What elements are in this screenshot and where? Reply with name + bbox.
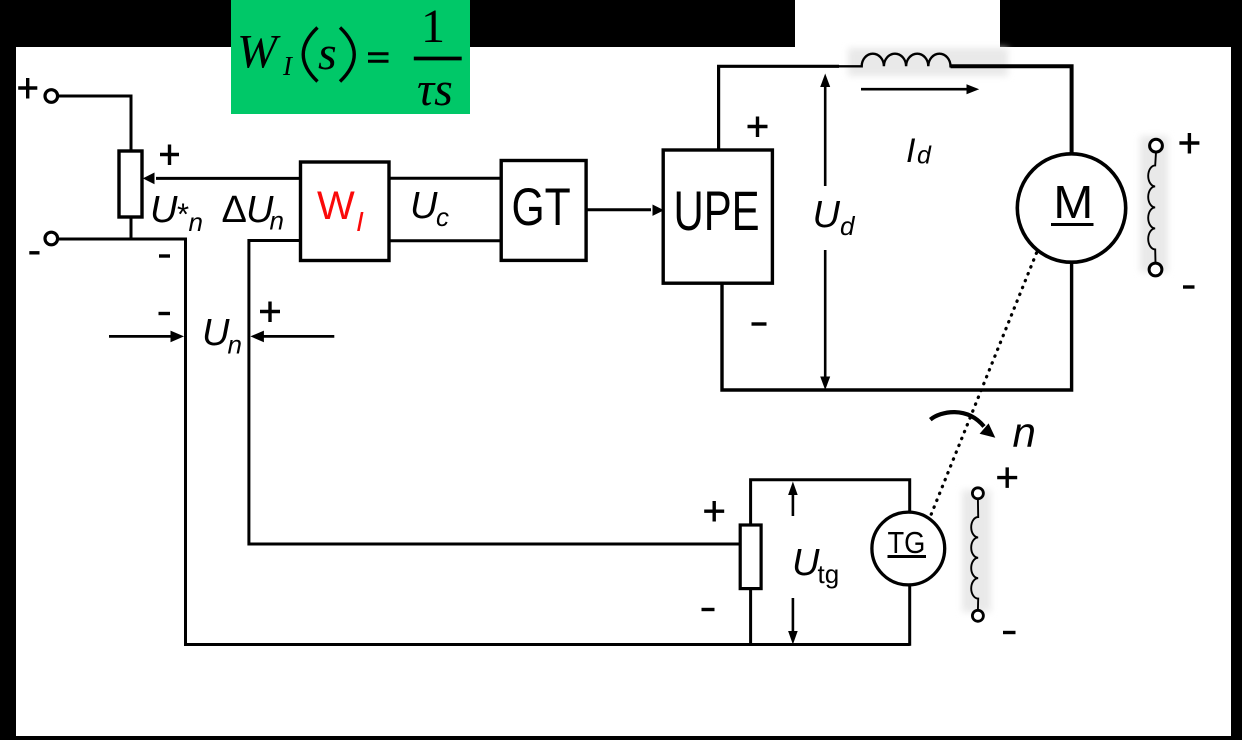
minus sign below potentiometer [159, 254, 170, 257]
wire: left feedback bus from - terminal down and along bottom to TG loop [58, 239, 910, 645]
svg-text:U: U [202, 312, 230, 354]
resistor in TG loop [740, 525, 761, 589]
svg-text:τs: τs [417, 63, 453, 116]
svg-text:n: n [1013, 409, 1036, 456]
motor M circle [1017, 154, 1125, 262]
wire TG loop top [751, 480, 910, 525]
wire GT to UPE with arrow [586, 208, 651, 211]
svg-text:U: U [813, 194, 841, 236]
svg-text:I: I [356, 206, 364, 237]
motor field winding coil [1148, 152, 1156, 263]
wire UPE top to bus [719, 66, 839, 150]
block UPE [663, 150, 772, 283]
label delta U_n [222, 189, 284, 236]
I_d current arrow [861, 88, 967, 91]
U_n right arrow [262, 335, 334, 338]
plus sign TG field [997, 467, 1017, 488]
label M underlined [1051, 177, 1094, 228]
wires W_I to GT [389, 177, 501, 180]
svg-text:1: 1 [421, 0, 445, 53]
svg-text:n: n [189, 207, 203, 237]
plus sign at top-left source terminal [18, 78, 37, 99]
svg-text:d: d [840, 211, 856, 241]
minus sign above U_n left arrow [159, 312, 171, 315]
rotation arrow n [930, 412, 984, 426]
svg-text:n: n [228, 330, 242, 360]
plus sign motor field [1179, 133, 1199, 154]
terminal circle - (bottom-left) [45, 232, 58, 245]
label U_tg [792, 542, 839, 589]
label U*_n [150, 189, 203, 237]
svg-text:W: W [317, 184, 355, 228]
svg-text:s: s [318, 27, 337, 80]
svg-text:U: U [150, 189, 178, 231]
svg-text:tg: tg [818, 559, 840, 589]
potentiometer R [119, 151, 142, 217]
svg-text:W: W [237, 26, 281, 79]
wire: inner feedback from W_I input down to TG resistor [249, 241, 740, 545]
label TG underlined [888, 526, 927, 560]
tachogenerator TG circle [872, 512, 945, 585]
dotted shaft M to TG [931, 253, 1037, 516]
U_tg double arrow [788, 482, 798, 645]
svg-text:*: * [177, 197, 189, 232]
U_d double arrow [820, 74, 830, 391]
smoothing reactor L coil [839, 54, 956, 67]
svg-text:c: c [436, 202, 449, 232]
minus sign below UPE [752, 322, 767, 325]
label U_d [813, 194, 857, 241]
wire potentiometer bottom [130, 217, 133, 241]
TG field winding coil [971, 499, 978, 611]
plus sign at potentiometer wiper [160, 145, 179, 166]
minus sign motor field [1183, 285, 1195, 288]
svg-text:n: n [270, 206, 284, 236]
minus sign TG field [1003, 631, 1016, 634]
TG field terminal circles [972, 488, 983, 499]
svg-text:UPE: UPE [674, 180, 760, 242]
svg-text:GT: GT [512, 178, 571, 237]
block GT [501, 161, 586, 261]
plus sign TG loop [704, 501, 724, 522]
wire below resistor [749, 589, 752, 646]
smoothing reactor L (fuzz) [848, 48, 1008, 76]
motor field winding fuzz [1140, 136, 1168, 272]
label W_I (red) [317, 184, 364, 237]
motor field terminal circles [1150, 139, 1163, 152]
wire TG bottom vertical [908, 585, 911, 646]
terminal circle + (top-left) [45, 90, 58, 103]
label U_c [410, 185, 449, 232]
minus sign at bottom-left source terminal [29, 251, 39, 254]
svg-text:d: d [917, 142, 932, 170]
green formula box [231, 0, 470, 116]
wire bus to M top [951, 66, 1072, 154]
regulator block W_I (U1) [301, 162, 390, 261]
svg-text:I: I [906, 132, 916, 170]
svg-text:U: U [410, 185, 438, 227]
plus sign above UPE [748, 117, 768, 138]
minus sign TG loop [702, 608, 715, 611]
label U_n [202, 312, 242, 360]
TG field winding fuzz [962, 490, 991, 612]
U_n left arrow [109, 335, 172, 338]
wire main loop bottom (UPE- to M-) [722, 262, 1072, 390]
svg-text:Δ: Δ [222, 189, 247, 231]
label I_d [906, 132, 932, 170]
svg-text:U: U [792, 542, 820, 584]
wiper arrow wire from W_I block to potentiometer [156, 177, 300, 180]
svg-text:M: M [1053, 177, 1093, 228]
plus sign above U_n right arrow [260, 302, 280, 323]
wire from + terminal to potentiometer top [58, 96, 131, 151]
